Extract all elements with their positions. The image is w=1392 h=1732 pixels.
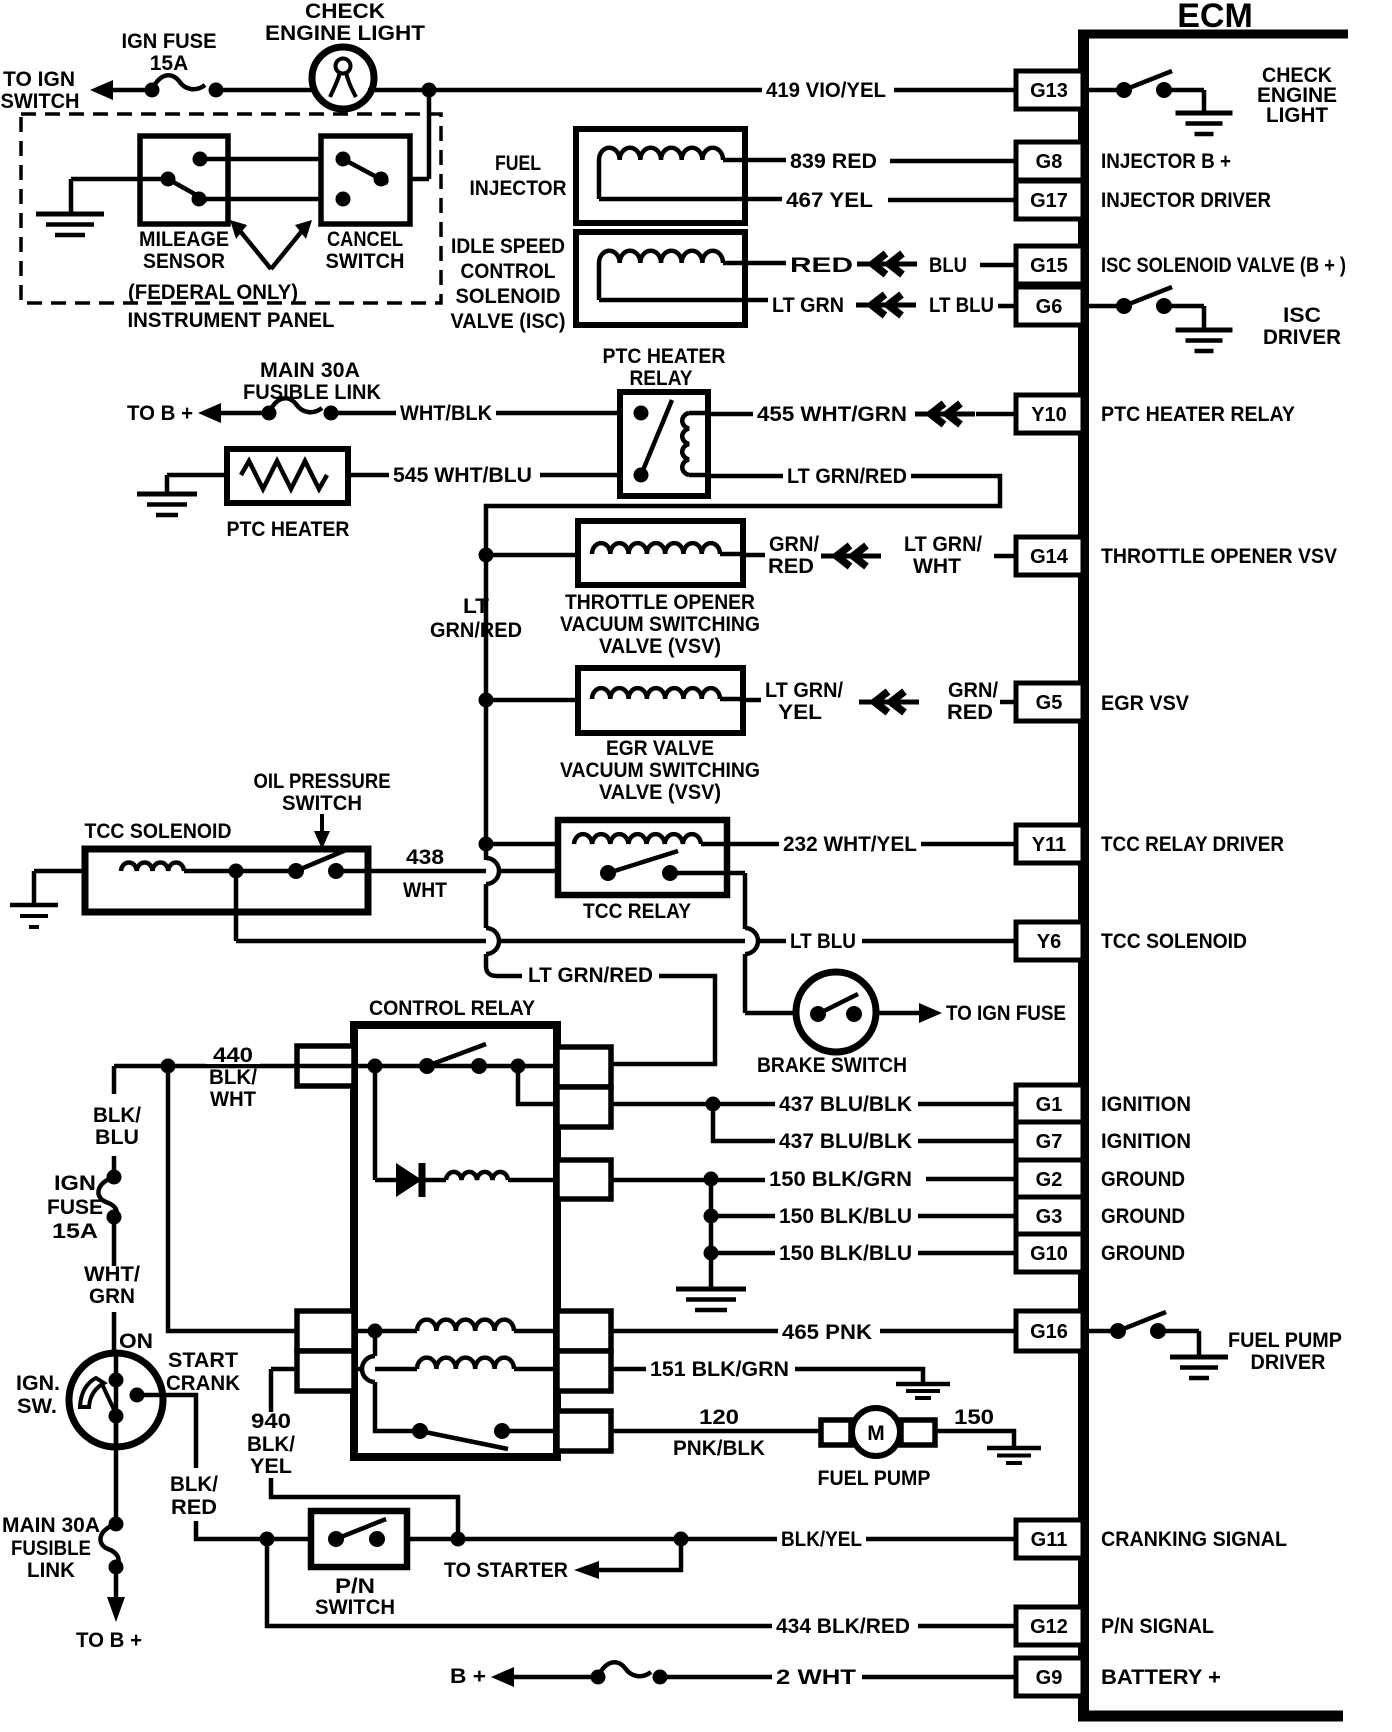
- wire node A to 419 VIO/YEL label: [429, 88, 762, 93]
- wire 437 BLU/BLK to G1: [918, 1102, 1016, 1107]
- switch CHECK ENGINE LIGHT driver (inside ECM): [1089, 71, 1204, 113]
- wire node A down to cancel switch: [427, 90, 432, 179]
- switch BRAKE SWITCH: [745, 972, 876, 1052]
- relay switch contacts (fuel pump row): [412, 1423, 611, 1449]
- svg-text:150: 150: [954, 1406, 994, 1429]
- wire LT BLU to G6: [998, 304, 1016, 309]
- connector chevron (EGR VSV): [859, 700, 919, 705]
- svg-text:2 WHT: 2 WHT: [776, 1666, 856, 1689]
- svg-text:GRN/: GRN/: [769, 533, 819, 556]
- svg-text:GROUND: GROUND: [1101, 1168, 1185, 1191]
- svg-text:LT GRN/RED: LT GRN/RED: [787, 465, 907, 488]
- relay coil 2 (940 row): [354, 1358, 646, 1369]
- wire LT GRN/RED to bus: [486, 476, 1000, 552]
- svg-text:RED: RED: [171, 1496, 217, 1519]
- svg-text:M: M: [867, 1422, 885, 1445]
- arrow TO B + (top): [198, 403, 221, 423]
- wire PTC heater to ground: [167, 473, 227, 478]
- wire: TO IGN SWITCH feed, y=90: [112, 88, 152, 93]
- wire G10 row: [711, 1251, 775, 1256]
- svg-text:ON: ON: [119, 1330, 153, 1353]
- arrow TO IGN FUSE: [919, 1003, 942, 1023]
- ECM connector pin G3: [1016, 1197, 1083, 1235]
- svg-text:120: 120: [699, 1406, 739, 1429]
- output terminal box (diode row): [557, 1160, 611, 1199]
- wire mileage sensor to cancel switch (bottom): [199, 197, 343, 202]
- wire 438 WHT from TCC solenoid to TCC relay: [368, 869, 558, 874]
- svg-text:MILEAGE: MILEAGE: [139, 228, 229, 251]
- svg-text:VACUUM SWITCHING: VACUUM SWITCHING: [560, 613, 760, 636]
- svg-text:G16: G16: [1030, 1321, 1068, 1343]
- svg-text:TO IGN: TO IGN: [3, 68, 75, 91]
- switch P/N SWITCH: [311, 1511, 407, 1567]
- wire ign fuse to WHT/GRN: [112, 1217, 117, 1266]
- wire BLK/RED to P/N row: [196, 1521, 311, 1539]
- svg-text:BRAKE SWITCH: BRAKE SWITCH: [757, 1054, 907, 1077]
- wire junction to EGR VSV: [486, 698, 592, 703]
- svg-text:BLK/: BLK/: [93, 1104, 141, 1127]
- wire throttle VSV to GRN/RED: [743, 553, 765, 558]
- svg-text:SWITCH: SWITCH: [282, 792, 362, 815]
- wire 419 VIO/YEL to G13: [894, 88, 1016, 93]
- wire WHT/BLK to PTC heater relay: [496, 411, 620, 416]
- ECM module boundary: [1078, 30, 1348, 1716]
- junction node A at (429,90): [422, 83, 437, 98]
- junction 150 BLK/BLU (G3): [704, 1209, 719, 1224]
- svg-text:150 BLK/BLU: 150 BLK/BLU: [779, 1205, 912, 1228]
- switch IGN. SW. (ignition switch): [69, 1353, 163, 1447]
- wire PTC heater to 545 WHT/BLU: [348, 473, 389, 478]
- output terminal box (120 PNK/BLK): [557, 1411, 611, 1451]
- relay PTC HEATER RELAY: [620, 392, 708, 496]
- bus hop over LT BLU wire: [486, 928, 499, 954]
- svg-text:BATTERY +: BATTERY +: [1101, 1666, 1221, 1689]
- wire mileage sensor to ground: [71, 177, 168, 182]
- svg-text:SWITCH: SWITCH: [326, 250, 405, 273]
- junction 437 BLU/BLK: [706, 1097, 721, 1112]
- junction 440 to ign switch branch: [161, 1059, 176, 1074]
- svg-text:DRIVER: DRIVER: [1263, 326, 1341, 349]
- svg-text:Y11: Y11: [1032, 834, 1066, 856]
- svg-text:CRANK: CRANK: [166, 1372, 240, 1395]
- wire BLU to G15: [980, 263, 1016, 268]
- wire TCC solenoid junction down to LT BLU row: [234, 871, 239, 941]
- svg-text:232 WHT/YEL: 232 WHT/YEL: [783, 833, 917, 856]
- svg-text:IGNITION: IGNITION: [1101, 1093, 1191, 1116]
- svg-text:SWITCH: SWITCH: [315, 1596, 395, 1619]
- ECM connector pin G13: [1016, 71, 1083, 109]
- svg-text:BLU: BLU: [95, 1126, 139, 1149]
- svg-text:WHT: WHT: [913, 555, 961, 578]
- svg-text:LT GRN/: LT GRN/: [765, 679, 843, 702]
- wire TCC relay switch to brake switch vertical: [727, 871, 745, 876]
- svg-text:WHT/BLK: WHT/BLK: [400, 402, 492, 425]
- wire fusible link to 2 WHT: [660, 1675, 772, 1680]
- ground (TCC solenoid): [10, 903, 58, 908]
- wire LT GRN/RED to control relay return: [611, 976, 715, 1064]
- ECM connector pin G2: [1016, 1160, 1083, 1198]
- wire bus segment to throttle VSV junction: [484, 552, 489, 700]
- fuse fusible link (battery feed): [591, 1662, 668, 1684]
- solenoid TCC SOLENOID with oil pressure switch: [85, 849, 368, 912]
- wire mileage sensor to cancel switch (top): [200, 157, 343, 162]
- arrow TO B + (bottom left): [114, 1567, 119, 1598]
- junction bus to EGR VSV: [479, 693, 494, 708]
- solenoid THROTTLE OPENER VSV: [578, 521, 743, 585]
- wire 465 PNK to G16: [880, 1329, 1016, 1334]
- svg-text:PTC HEATER: PTC HEATER: [603, 345, 726, 368]
- wire BLK/BLU branch down to ign fuse: [112, 1156, 117, 1177]
- svg-text:SW.: SW.: [17, 1395, 57, 1418]
- junction TO STARTER branch: [674, 1532, 689, 1547]
- svg-text:G12: G12: [1030, 1616, 1068, 1638]
- wire injector coil to 839 RED: [723, 158, 786, 163]
- wire WHT/GRN to ignition switch: [112, 1312, 117, 1380]
- svg-text:G3: G3: [1036, 1206, 1063, 1228]
- wire to G5: [1000, 700, 1016, 705]
- wire relay to 455 WHT/GRN: [708, 412, 753, 417]
- svg-text:EGR VALVE: EGR VALVE: [606, 737, 714, 760]
- wire branch to G7 row: [713, 1104, 775, 1141]
- svg-text:LINK: LINK: [27, 1559, 75, 1582]
- wire LT BLU row horizontal: [236, 939, 786, 944]
- junction 150 BLK/BLU (G10): [704, 1246, 719, 1261]
- wire label BLK/YEL: [778, 1528, 866, 1550]
- svg-text:FUSIBLE LINK: FUSIBLE LINK: [243, 381, 381, 404]
- svg-text:GROUND: GROUND: [1101, 1242, 1185, 1265]
- wire fuse to check engine light: [216, 88, 318, 93]
- svg-text:FUEL PUMP: FUEL PUMP: [818, 1467, 931, 1490]
- wire relay switch branch with hop: [375, 1331, 420, 1431]
- svg-text:151 BLK/GRN: 151 BLK/GRN: [650, 1358, 789, 1381]
- wire 467 YEL to G17: [888, 198, 1016, 203]
- svg-text:START: START: [168, 1349, 238, 1372]
- solenoid EGR VALVE VSV: [578, 668, 743, 733]
- svg-text:RELAY: RELAY: [630, 367, 693, 390]
- ground (151 BLK/GRN): [896, 1382, 950, 1387]
- pointer arrow oil pressure switch: [320, 814, 324, 834]
- wire bus junction to TCC relay coil: [479, 837, 494, 852]
- ECM connector pin G10: [1016, 1234, 1083, 1272]
- arrow TO STARTER: [574, 1561, 599, 1579]
- arrow B +: [491, 1667, 514, 1687]
- connector chevron (ISC B+): [857, 262, 917, 267]
- fuse IGN FUSE 15A (lower): [98, 1170, 121, 1225]
- svg-text:GRN/RED: GRN/RED: [430, 619, 522, 642]
- svg-text:150 BLK/BLU: 150 BLK/BLU: [779, 1242, 912, 1265]
- ECM connector pin G6: [1016, 287, 1083, 325]
- svg-text:P/N SIGNAL: P/N SIGNAL: [1101, 1615, 1214, 1638]
- svg-text:CHECK: CHECK: [305, 0, 385, 23]
- wire 150 BLK/BLU to G3: [918, 1214, 1016, 1219]
- relay CONTROL RELAY main box: [354, 1025, 557, 1457]
- relay switch contacts (top row): [368, 1044, 526, 1074]
- ECM connector pin G16: [1016, 1311, 1083, 1351]
- wire fuel pump to ground: [935, 1431, 1014, 1446]
- wire corner from BLK/BLU branch: [112, 1066, 117, 1094]
- wire P/N switch to cranking row: [407, 1537, 777, 1542]
- svg-text:INJECTOR B +: INJECTOR B +: [1101, 150, 1231, 173]
- wire 839 RED to G8: [890, 159, 1016, 164]
- motor FUEL PUMP: [821, 1408, 935, 1456]
- junction 150 BLK/GRN: [704, 1172, 719, 1187]
- ground for ISC driver: [1176, 328, 1233, 333]
- svg-text:TCC SOLENOID: TCC SOLENOID: [1101, 930, 1247, 953]
- svg-text:B +: B +: [450, 1665, 486, 1688]
- svg-text:BLK/: BLK/: [247, 1433, 295, 1456]
- connector chevron (throttle opener VSV): [821, 554, 881, 559]
- switch CANCEL SWITCH: [321, 136, 410, 224]
- wire 120 PNK/BLK to fuel pump: [611, 1429, 821, 1434]
- wire branch to second output: [518, 1066, 611, 1104]
- output terminal box (to LT GRN/RED): [557, 1047, 611, 1087]
- wire 437 BLU/BLK to G7: [918, 1139, 1016, 1144]
- svg-text:CRANKING SIGNAL: CRANKING SIGNAL: [1101, 1528, 1287, 1551]
- fuse MAIN 30A FUSIBLE LINK (top): [262, 398, 339, 420]
- wire 940 BLK/YEL from P/N circuit to coil 2: [271, 1369, 458, 1539]
- svg-text:G14: G14: [1030, 546, 1069, 568]
- input terminal box (coil 1): [297, 1311, 354, 1351]
- svg-text:G2: G2: [1036, 1169, 1063, 1191]
- svg-text:ISC SOLENOID VALVE (B + ): ISC SOLENOID VALVE (B + ): [1101, 254, 1346, 277]
- ECM connector pin G15: [1016, 246, 1083, 284]
- wire relay to LT GRN/RED label: [708, 474, 783, 479]
- inductor after diode: [446, 1172, 508, 1180]
- svg-text:TCC RELAY: TCC RELAY: [583, 900, 691, 923]
- svg-text:DRIVER: DRIVER: [1251, 1351, 1326, 1374]
- wire ign switch START to BLK/RED: [137, 1395, 196, 1468]
- svg-text:MAIN 30A: MAIN 30A: [260, 359, 360, 382]
- ground (instrument panel): [36, 212, 104, 217]
- svg-text:G13: G13: [1030, 80, 1068, 102]
- svg-text:839 RED: 839 RED: [790, 150, 877, 173]
- ECM connector pin Y10: [1016, 395, 1083, 433]
- svg-text:G1: G1: [1036, 1094, 1063, 1116]
- lamp CHECK ENGINE LIGHT (instrument panel): [312, 47, 374, 109]
- ECM connector pin G5: [1016, 683, 1083, 721]
- wire 437 BLU/BLK row to junction: [611, 1102, 775, 1107]
- input terminal box (coil 2): [297, 1351, 354, 1391]
- wire cancel switch to node A vertical: [381, 177, 429, 182]
- svg-text:ECM: ECM: [1177, 0, 1253, 35]
- svg-text:P/N: P/N: [335, 1575, 375, 1598]
- svg-text:BLK/: BLK/: [170, 1473, 218, 1496]
- svg-text:INSTRUMENT PANEL: INSTRUMENT PANEL: [128, 309, 335, 332]
- wire LT BLU to Y6: [862, 939, 1016, 944]
- svg-text:RED: RED: [768, 555, 814, 578]
- svg-text:WHT: WHT: [210, 1088, 256, 1111]
- wire 232 WHT/YEL to Y11: [921, 842, 1016, 847]
- junction BLK/RED to P/N signal branch: [260, 1532, 275, 1547]
- svg-text:FUEL PUMP: FUEL PUMP: [1228, 1329, 1342, 1352]
- svg-text:PNK/BLK: PNK/BLK: [673, 1437, 765, 1460]
- switch ISC DRIVER (inside ECM): [1089, 287, 1204, 330]
- ground (ECM ground bus): [676, 1287, 746, 1292]
- svg-text:(FEDERAL ONLY): (FEDERAL ONLY): [128, 281, 298, 304]
- svg-text:IDLE SPEED: IDLE SPEED: [451, 235, 565, 258]
- wire B+ to fusible link: [513, 1675, 598, 1680]
- svg-text:PTC HEATER: PTC HEATER: [227, 518, 350, 541]
- ground (fuel pump): [987, 1446, 1041, 1451]
- svg-text:G10: G10: [1030, 1243, 1068, 1265]
- wire injector low side to 467 YEL: [599, 197, 782, 202]
- svg-text:GRN/: GRN/: [948, 679, 998, 702]
- svg-text:WHT: WHT: [403, 879, 447, 902]
- svg-text:OIL PRESSURE: OIL PRESSURE: [254, 770, 391, 793]
- svg-text:LIGHT: LIGHT: [1266, 104, 1328, 127]
- svg-text:VALVE (VSV): VALVE (VSV): [599, 781, 721, 804]
- ground (PTC heater): [137, 492, 197, 497]
- svg-text:G8: G8: [1036, 151, 1063, 173]
- svg-text:G17: G17: [1030, 190, 1068, 212]
- wire 434 BLK/RED row: [267, 1539, 772, 1626]
- svg-text:BLU: BLU: [929, 254, 967, 277]
- wire ISC low side to LT GRN: [599, 298, 768, 303]
- ECM connector pin G11: [1016, 1520, 1083, 1558]
- svg-text:467 YEL: 467 YEL: [786, 189, 873, 212]
- svg-text:MAIN 30A: MAIN 30A: [2, 1514, 100, 1537]
- wire to fusible link: [220, 411, 269, 416]
- hop of relay switch branch over coil2 wire: [362, 1356, 375, 1382]
- svg-text:G6: G6: [1036, 296, 1063, 318]
- svg-text:INJECTOR DRIVER: INJECTOR DRIVER: [1101, 189, 1271, 212]
- wire bus segment to first hop: [484, 844, 489, 860]
- fuse MAIN 30A FUSIBLE LINK (bottom): [100, 1517, 123, 1575]
- svg-text:GRN: GRN: [89, 1285, 135, 1308]
- svg-text:IGN FUSE: IGN FUSE: [122, 30, 217, 53]
- svg-text:G7: G7: [1036, 1131, 1063, 1153]
- svg-text:15A: 15A: [52, 1220, 98, 1243]
- svg-text:Y10: Y10: [1031, 404, 1067, 426]
- svg-text:LT BLU: LT BLU: [929, 294, 994, 317]
- svg-text:SENSOR: SENSOR: [143, 250, 225, 273]
- output terminal box (437 ignition): [557, 1087, 611, 1127]
- wire G3 row: [711, 1214, 775, 1219]
- fuse IGN FUSE 15A (top): [145, 75, 224, 97]
- svg-text:VACUUM SWITCHING: VACUUM SWITCHING: [560, 759, 760, 782]
- svg-text:CONTROL: CONTROL: [461, 260, 556, 283]
- relay coil 1 (fuel pump relay coil): [354, 1320, 778, 1339]
- svg-text:545 WHT/BLU: 545 WHT/BLU: [393, 464, 532, 487]
- svg-text:419 VIO/YEL: 419 VIO/YEL: [766, 79, 886, 102]
- ECM connector pin G9: [1016, 1658, 1083, 1696]
- wire diode branch vertical: [373, 1066, 378, 1180]
- wire 150 BLK/GRN to G2: [926, 1177, 1016, 1182]
- wire 150 BLK/BLU to G10: [918, 1251, 1016, 1256]
- arrow to ign switch: [90, 80, 113, 100]
- svg-text:IGNITION: IGNITION: [1101, 1130, 1191, 1153]
- ECM connector pin Y6: [1016, 922, 1083, 960]
- output terminal box (151 BLK/GRN): [557, 1351, 611, 1391]
- svg-text:G9: G9: [1036, 1667, 1063, 1689]
- svg-text:440: 440: [213, 1044, 253, 1067]
- wire to G14: [994, 554, 1016, 559]
- svg-text:PTC HEATER RELAY: PTC HEATER RELAY: [1101, 403, 1295, 426]
- connector chevron (PTC heater relay): [915, 412, 975, 417]
- svg-text:VALVE (ISC): VALVE (ISC): [451, 310, 566, 333]
- wire 2 WHT to G9: [862, 1675, 1016, 1680]
- svg-text:EGR VSV: EGR VSV: [1101, 692, 1189, 715]
- wire TCC solenoid to ground: [34, 869, 85, 874]
- svg-text:437 BLU/BLK: 437 BLU/BLK: [779, 1093, 912, 1116]
- solenoid FUEL INJECTOR: [576, 129, 745, 223]
- wire label LT BLU: [787, 931, 859, 951]
- wire EGR VSV to LT GRN/YEL: [743, 698, 761, 703]
- wire label 440 / BLK/ / WHT: [206, 1046, 260, 1064]
- ECM connector pin G14: [1016, 537, 1083, 575]
- wire junction to throttle VSV: [486, 553, 592, 558]
- wire fusible link to WHT/BLK: [331, 411, 396, 416]
- svg-text:VALVE (VSV): VALVE (VSV): [599, 635, 721, 658]
- svg-text:15A: 15A: [150, 52, 189, 75]
- svg-text:Y6: Y6: [1037, 931, 1061, 953]
- ECM connector pin G12: [1016, 1607, 1083, 1645]
- wire bus segment to EGR junction: [484, 700, 489, 844]
- svg-text:G15: G15: [1030, 255, 1068, 277]
- svg-text:ENGINE LIGHT: ENGINE LIGHT: [265, 22, 425, 45]
- ground for check engine light driver: [1176, 111, 1233, 116]
- connector chevron (ISC driver): [856, 303, 916, 308]
- svg-text:IGN: IGN: [54, 1172, 96, 1195]
- svg-text:TCC SOLENOID: TCC SOLENOID: [85, 820, 232, 843]
- svg-text:TO IGN FUSE: TO IGN FUSE: [946, 1002, 1066, 1025]
- instrument panel enclosure (dashed): [21, 114, 441, 303]
- wire TCC relay coil to 232 WHT/YEL: [727, 842, 779, 847]
- svg-text:455 WHT/GRN: 455 WHT/GRN: [757, 403, 907, 426]
- ECM connector pin G7: [1016, 1122, 1083, 1160]
- solenoid IDLE SPEED CONTROL VALVE (ISC): [576, 232, 745, 325]
- svg-text:FUEL: FUEL: [495, 152, 541, 175]
- wire 440 BLK/WHT row: [114, 1064, 611, 1069]
- svg-text:TO B +: TO B +: [127, 402, 193, 425]
- svg-text:FUSE: FUSE: [47, 1196, 103, 1219]
- wire brake switch to ign fuse arrow: [876, 1011, 920, 1016]
- wire ISC coil to RED: [723, 261, 786, 266]
- svg-text:THROTTLE OPENER: THROTTLE OPENER: [565, 591, 755, 614]
- relay TCC RELAY: [558, 820, 727, 895]
- svg-text:LT GRN/RED: LT GRN/RED: [528, 964, 653, 987]
- svg-text:434 BLK/RED: 434 BLK/RED: [776, 1615, 910, 1638]
- svg-text:LT GRN/: LT GRN/: [904, 533, 982, 556]
- svg-text:FUSIBLE: FUSIBLE: [11, 1537, 91, 1560]
- ECM connector pin G17: [1016, 181, 1083, 219]
- svg-text:INJECTOR: INJECTOR: [470, 177, 567, 200]
- ECM connector pin G8: [1016, 142, 1083, 180]
- ECM connector pin Y11: [1016, 825, 1083, 863]
- svg-text:YEL: YEL: [778, 701, 822, 724]
- svg-text:RED: RED: [947, 701, 993, 724]
- svg-text:YEL: YEL: [250, 1455, 292, 1478]
- input terminal box (440 BLK/WHT): [297, 1046, 354, 1086]
- svg-text:BLK/: BLK/: [209, 1066, 257, 1089]
- wire 434 BLK/RED to G12: [918, 1624, 1016, 1629]
- svg-text:G5: G5: [1036, 692, 1063, 714]
- svg-text:465 PNK: 465 PNK: [782, 1321, 872, 1344]
- svg-text:SOLENOID: SOLENOID: [456, 285, 561, 308]
- svg-text:437 BLU/BLK: 437 BLU/BLK: [779, 1130, 912, 1153]
- output terminal box (465 PNK): [557, 1311, 611, 1351]
- ECM connector pin G1: [1016, 1085, 1083, 1123]
- wire ground bus vertical (150 rows): [709, 1179, 714, 1289]
- svg-text:940: 940: [251, 1410, 291, 1433]
- wire 545 WHT/BLU to relay: [540, 473, 620, 478]
- svg-text:TO STARTER: TO STARTER: [444, 1559, 568, 1582]
- svg-text:TO B +: TO B +: [76, 1629, 142, 1652]
- svg-text:THROTTLE OPENER VSV: THROTTLE OPENER VSV: [1101, 545, 1337, 568]
- hop of brake-switch wire over LT BLU: [745, 928, 758, 954]
- pointer arrows to mileage sensor and cancel switch: [230, 220, 312, 269]
- wire chevron to Y10: [976, 412, 1016, 417]
